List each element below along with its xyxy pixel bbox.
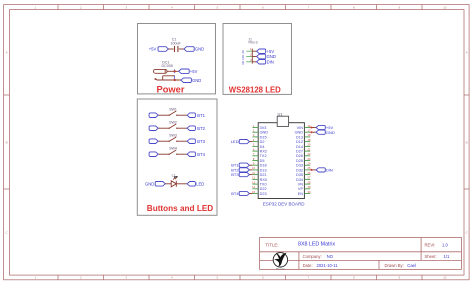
svg-text:SW4: SW4 <box>169 146 177 150</box>
svg-text:GND: GND <box>295 131 304 135</box>
svg-text:D13: D13 <box>296 135 303 139</box>
svg-text:1: 1 <box>250 47 252 51</box>
junction <box>311 131 313 133</box>
net GND <box>257 54 276 59</box>
svg-text:D23: D23 <box>260 192 267 196</box>
svg-text:6: 6 <box>262 276 264 280</box>
svg-text:23: 23 <box>308 157 311 161</box>
svg-text:3V3: 3V3 <box>260 126 267 130</box>
LED L1 <box>171 174 177 187</box>
junction <box>311 169 313 171</box>
svg-text:27: 27 <box>308 176 311 180</box>
svg-text:D15: D15 <box>260 135 267 139</box>
net BT2 <box>187 126 206 131</box>
J1 pin 2 <box>242 53 252 61</box>
svg-text:9: 9 <box>398 276 400 280</box>
switch SW2 <box>169 120 178 129</box>
svg-text:VP: VP <box>298 187 304 191</box>
svg-text:4: 4 <box>171 276 173 280</box>
svg-text:EN: EN <box>298 192 304 196</box>
svg-text:C: C <box>466 231 469 235</box>
wire <box>252 56 256 58</box>
svg-text:D26: D26 <box>296 154 303 158</box>
U2 pin 11 D21 <box>252 171 266 177</box>
wire <box>250 164 253 166</box>
svg-text:GND: GND <box>195 47 204 52</box>
svg-text:28: 28 <box>308 180 311 184</box>
svg-text:D32: D32 <box>296 168 303 172</box>
svg-text:21: 21 <box>308 147 311 151</box>
U2 pin 15 D23 <box>252 190 266 196</box>
net +5V <box>179 69 198 74</box>
U2 pin 10 D19 <box>252 166 266 172</box>
net BT3 <box>187 139 206 144</box>
U2 pin 22 D26 <box>296 152 311 158</box>
wire <box>158 127 169 129</box>
svg-text:6: 6 <box>262 5 264 9</box>
svg-text:Cael: Cael <box>407 263 416 268</box>
U2 pin 3 D15 <box>252 133 266 139</box>
U2 pin 26 D35 <box>296 171 311 177</box>
svg-text:D27: D27 <box>296 150 303 154</box>
connector J1 <box>249 38 258 64</box>
net GND port <box>149 152 158 157</box>
svg-text:D12: D12 <box>296 140 303 144</box>
svg-text:5: 5 <box>216 276 218 280</box>
junction <box>174 70 176 72</box>
U2 pin 19 D12 <box>296 138 311 144</box>
net GND <box>145 181 165 186</box>
U2 pin 8 D5 <box>252 157 264 163</box>
wire <box>177 140 187 142</box>
svg-text:3: 3 <box>250 58 252 62</box>
svg-text:DIN: DIN <box>267 59 274 64</box>
svg-text:SW3: SW3 <box>169 133 177 137</box>
svg-text:A: A <box>6 51 8 55</box>
net GND <box>316 130 335 135</box>
svg-text:GND: GND <box>260 131 269 135</box>
U2 pin 6 RX2 <box>252 147 267 153</box>
svg-text:ESP32 DEV BOARD: ESP32 DEV BOARD <box>263 201 306 206</box>
svg-text:D4: D4 <box>260 145 265 149</box>
U2 pin 29 VP <box>298 185 311 191</box>
svg-text:GND: GND <box>326 130 335 135</box>
svg-text:5: 5 <box>216 5 218 9</box>
svg-text:D19: D19 <box>260 168 267 172</box>
svg-text:SW1: SW1 <box>169 107 177 111</box>
svg-text:D33: D33 <box>296 164 303 168</box>
wire <box>177 114 187 116</box>
wire <box>252 50 256 52</box>
svg-text:BT4: BT4 <box>197 152 205 157</box>
wire <box>252 61 256 63</box>
svg-text:10: 10 <box>443 5 447 9</box>
U2 pin 12 RX0 <box>252 176 267 182</box>
U2 pin 14 D22 <box>252 185 266 191</box>
svg-text:9: 9 <box>398 5 400 9</box>
svg-text:MY-Logo: MY-Logo <box>276 268 285 270</box>
title block <box>260 238 462 270</box>
U2 pin 28 VN <box>298 180 311 186</box>
U2 pin 13 TX0 <box>252 180 266 186</box>
net BT3 <box>231 172 249 177</box>
svg-text:DIN: DIN <box>242 60 245 64</box>
wire <box>310 127 316 129</box>
net BT1 <box>187 113 206 118</box>
svg-text:24: 24 <box>308 162 311 166</box>
op-amp U2 ESP32 DEV BOARD body <box>258 123 304 199</box>
wire <box>250 141 253 143</box>
svg-text:20: 20 <box>308 143 311 147</box>
svg-text:GND: GND <box>192 78 201 83</box>
svg-text:Pins-3: Pins-3 <box>249 41 258 45</box>
svg-text:D14: D14 <box>296 145 303 149</box>
svg-text:BT3: BT3 <box>231 172 239 177</box>
svg-text:TX2: TX2 <box>260 154 267 158</box>
junction <box>174 79 176 81</box>
svg-text:7: 7 <box>307 5 309 9</box>
wire <box>177 127 187 129</box>
svg-text:1.0: 1.0 <box>442 243 448 248</box>
svg-text:D5: D5 <box>260 159 265 163</box>
U2 pin 25 D32 <box>296 166 311 172</box>
net GND port <box>149 126 158 131</box>
svg-text:29: 29 <box>308 185 311 189</box>
svg-text:22: 22 <box>308 152 311 156</box>
wire <box>158 153 169 155</box>
wire <box>250 169 253 171</box>
svg-text:DIN: DIN <box>326 168 333 173</box>
U2 pin 9 D18 <box>252 162 266 168</box>
svg-text:GND: GND <box>242 55 245 61</box>
net GND <box>184 47 204 52</box>
wire <box>310 169 316 171</box>
svg-text:REVI:: REVI: <box>425 243 436 248</box>
svg-text:2021-10-11: 2021-10-11 <box>317 263 339 268</box>
svg-text:1: 1 <box>34 5 36 9</box>
wire <box>310 131 316 133</box>
svg-text:Power: Power <box>157 85 185 95</box>
U2 pin 30 EN <box>298 190 311 196</box>
svg-text:WS28128 LED: WS28128 LED <box>229 85 281 94</box>
net +5V <box>149 47 169 52</box>
U2 pin 17 GND <box>295 129 311 135</box>
svg-text:100uF: 100uF <box>171 41 182 45</box>
U2 pin 18 D13 <box>296 133 311 139</box>
wire <box>163 79 181 81</box>
switch SW3 <box>169 133 178 142</box>
net GND port <box>149 139 158 144</box>
U2 label <box>263 201 306 206</box>
net LED <box>231 139 250 144</box>
svg-text:1: 1 <box>34 276 36 280</box>
svg-text:Date:: Date: <box>303 263 313 268</box>
svg-text:26: 26 <box>308 171 311 175</box>
svg-text:VIN: VIN <box>297 126 304 130</box>
svg-text:DC005: DC005 <box>162 64 173 68</box>
junction <box>311 127 313 129</box>
svg-text:Sheet:: Sheet: <box>425 254 437 259</box>
svg-text:10: 10 <box>443 276 447 280</box>
logo <box>273 253 287 271</box>
svg-text:GND: GND <box>267 54 276 59</box>
svg-text:+5V: +5V <box>149 47 157 52</box>
svg-text:C: C <box>6 231 9 235</box>
svg-text:LED: LED <box>231 139 239 144</box>
svg-text:BT2: BT2 <box>197 126 205 131</box>
switch SW4 <box>169 146 178 155</box>
svg-text:4: 4 <box>171 5 173 9</box>
svg-text:+5V: +5V <box>267 49 275 54</box>
U2 refdes <box>277 112 283 117</box>
svg-text:BT1: BT1 <box>197 113 205 118</box>
wire <box>167 70 179 72</box>
U2 pin 24 D33 <box>296 162 311 168</box>
capacitor C1 <box>171 38 182 53</box>
U2 pin 2 GND <box>252 129 268 135</box>
svg-text:+5V: +5V <box>242 50 245 55</box>
U2 pin 21 D27 <box>296 147 311 153</box>
svg-text:8: 8 <box>353 5 355 9</box>
net BT4 <box>187 152 206 157</box>
wire <box>179 48 184 50</box>
U2 pin 5 D4 <box>252 143 264 149</box>
svg-text:NO: NO <box>327 254 334 259</box>
wire <box>168 48 173 50</box>
svg-text:D35: D35 <box>296 173 303 177</box>
svg-text:RX0: RX0 <box>260 178 267 182</box>
U2 pin 27 D34 <box>296 176 311 182</box>
svg-text:D21: D21 <box>260 173 267 177</box>
svg-text:SW2: SW2 <box>169 120 177 124</box>
net DIN <box>257 59 274 64</box>
net BT2 <box>231 167 249 172</box>
svg-text:LED: LED <box>196 181 204 186</box>
wire <box>250 174 253 176</box>
net BT1 <box>231 163 249 168</box>
svg-text:TITLE:: TITLE: <box>265 242 278 247</box>
svg-text:7: 7 <box>307 276 309 280</box>
svg-text:19: 19 <box>308 138 311 142</box>
J1 pin 3 <box>242 58 252 65</box>
svg-text:3: 3 <box>125 5 127 9</box>
svg-text:18: 18 <box>308 133 311 137</box>
net GND port <box>149 113 158 118</box>
svg-text:RX2: RX2 <box>260 150 267 154</box>
wire <box>165 183 171 185</box>
wire <box>177 153 187 155</box>
U2 pin 4 D2 <box>252 138 264 144</box>
svg-text:3: 3 <box>125 276 127 280</box>
svg-text:D34: D34 <box>296 178 303 182</box>
switch SW1 <box>169 107 178 116</box>
U2 pin 20 D14 <box>296 143 311 149</box>
svg-text:Company:: Company: <box>303 254 322 259</box>
svg-text:Drawn By:: Drawn By: <box>385 263 404 268</box>
U2 pin 23 D25 <box>296 157 311 163</box>
J1 pin 1 <box>242 47 252 54</box>
svg-text:30: 30 <box>308 190 311 194</box>
svg-text:D2: D2 <box>260 140 265 144</box>
svg-text:BT4: BT4 <box>231 191 239 196</box>
svg-text:B: B <box>6 141 8 145</box>
U2 USB connector <box>277 116 288 126</box>
svg-text:BT3: BT3 <box>197 139 205 144</box>
net DIN <box>316 168 333 173</box>
net +5V <box>316 125 333 130</box>
svg-text:+5V: +5V <box>190 69 198 74</box>
svg-text:B: B <box>466 141 468 145</box>
net +5V <box>257 49 275 54</box>
connector DC1 DC005 <box>154 60 176 80</box>
net GND <box>181 78 201 83</box>
U2 pin 16 VIN <box>297 124 311 130</box>
svg-text:A: A <box>466 51 468 55</box>
wire <box>250 193 253 195</box>
svg-text:D22: D22 <box>260 187 267 191</box>
svg-text:U1: U1 <box>277 112 283 117</box>
svg-text:GND: GND <box>145 181 154 186</box>
svg-text:D25: D25 <box>296 159 303 163</box>
svg-text:8X8 LED Matrix: 8X8 LED Matrix <box>298 242 335 248</box>
wire <box>176 183 187 185</box>
net LED <box>187 181 204 186</box>
svg-text:D18: D18 <box>260 164 267 168</box>
svg-text:VN: VN <box>298 183 304 187</box>
wire <box>158 140 169 142</box>
U2 pin 7 TX2 <box>252 152 266 158</box>
svg-text:2: 2 <box>250 53 252 57</box>
svg-text:2: 2 <box>80 5 82 9</box>
net BT4 <box>231 191 249 196</box>
svg-text:2: 2 <box>80 276 82 280</box>
svg-text:8: 8 <box>353 276 355 280</box>
wire <box>158 114 169 116</box>
svg-text:Buttons and LED: Buttons and LED <box>147 204 213 213</box>
svg-text:TX0: TX0 <box>260 183 267 187</box>
U2 pin 1 3V3 <box>252 124 266 130</box>
svg-text:1/1: 1/1 <box>444 254 450 259</box>
